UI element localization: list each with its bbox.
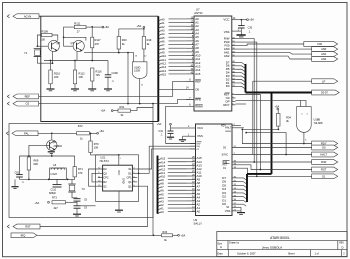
svg-text:470: 470: [95, 42, 100, 46]
svg-text:4: 4: [133, 168, 134, 170]
svg-text:IRQ: IRQ: [197, 146, 201, 148]
svg-text:A0: A0: [197, 210, 201, 214]
resistor R110 220: [49, 70, 52, 84]
svg-text:O0: O0: [322, 146, 326, 150]
U21 74LS74 sub-box: [96, 155, 139, 202]
svg-text:ATARI 800XL: ATARI 800XL: [270, 236, 290, 240]
svg-text:U18B: U18B: [314, 117, 321, 121]
title block date row: [227, 250, 229, 257]
net label PAL (left): [6, 132, 8, 135]
wire U21 to SALLY clock lines: [137, 149, 195, 169]
svg-text:PAL: PAL: [24, 131, 29, 135]
svg-text:74LS74: 74LS74: [99, 159, 109, 163]
net label RDY: [312, 141, 338, 146]
svg-text:R31: R31: [120, 105, 125, 109]
svg-text:D: D: [342, 246, 344, 250]
ground SALLY VSS: [179, 139, 186, 141]
active-low overbars on pin names: [195, 79, 201, 81]
svg-text:6: 6: [133, 185, 134, 187]
capacitor C111 825pF: [56, 179, 58, 184]
svg-text:VCC: VCC: [223, 17, 229, 21]
svg-text:A: A: [220, 245, 222, 249]
wire Y2 bottom to R73 row: [72, 192, 77, 198]
net label AN1: [312, 52, 338, 57]
net label O0: [312, 145, 338, 150]
svg-text:A14: A14: [160, 160, 165, 164]
wire U18B left input: [300, 100, 302, 106]
power +5A (R72): [90, 132, 97, 134]
svg-text:10: 10: [98, 185, 100, 187]
wire U18D net vertical to IRQ line: [152, 104, 154, 236]
net label AN0: [312, 47, 338, 52]
svg-text:+5A: +5A: [249, 18, 254, 22]
power +5A (R19/R20): [143, 26, 145, 28]
wire U21 clock feed: [118, 155, 120, 165]
wire R19 bottom to U18D input: [143, 49, 145, 62]
wire Q7 emitter down: [76, 52, 78, 61]
resistor R116 7k5: [91, 68, 94, 81]
wire F00 to net label: [236, 44, 304, 46]
SALLY clock input pins: [190, 143, 196, 145]
resistor R20 3k: [117, 36, 120, 49]
title block size/doc row: [227, 241, 229, 250]
ground below R116: [88, 88, 96, 90]
wire AN0 to net label: [236, 48, 312, 50]
svg-text:+5A: +5A: [35, 201, 40, 205]
wire U18D output net vertical: [127, 53, 129, 104]
svg-text:+5A: +5A: [275, 104, 280, 108]
ANTIC pin 24 O0: [158, 88, 194, 90]
wire LP: [253, 80, 312, 82]
svg-text:Drawn by: Drawn by: [229, 242, 240, 245]
svg-text:A10: A10: [160, 175, 165, 179]
svg-text:A6: A6: [161, 40, 165, 44]
svg-text:R117: R117: [95, 38, 102, 42]
ground SALLY bottom: [240, 207, 242, 212]
resistor R70 10K: [89, 141, 92, 153]
svg-text:GND: GND: [122, 178, 125, 184]
svg-text:A9: A9: [160, 178, 164, 182]
wire AN1 to net label: [236, 53, 312, 55]
svg-text:CP1: CP1: [127, 176, 133, 180]
svg-text:A4: A4: [161, 32, 165, 36]
svg-text:Q7: Q7: [71, 41, 75, 45]
resistor R117 470: [91, 27, 93, 37]
svg-text:C209: C209: [112, 71, 119, 75]
ground below C209: [104, 88, 112, 90]
title block REV box: [337, 241, 339, 250]
SALLY pin 7 SYNC: [232, 154, 312, 156]
wire U21 left feedback loops: [89, 169, 98, 186]
wire +5A to R20 top: [143, 28, 144, 29]
svg-text:+5A: +5A: [137, 24, 142, 28]
svg-text:1 of: 1 of: [315, 252, 319, 255]
resistor R112 100: [73, 70, 76, 84]
svg-text:+5A: +5A: [104, 25, 109, 29]
svg-text:A15: A15: [195, 72, 201, 76]
svg-text:A1: A1: [161, 21, 165, 25]
svg-text:LS08: LS08: [134, 70, 140, 73]
svg-text:VSS: VSS: [224, 30, 230, 34]
wire R117 bottom to emitter rail: [91, 48, 93, 61]
svg-text:+5A: +5A: [157, 123, 162, 126]
SALLY pin 37 O0: [232, 147, 312, 149]
svg-text:R116: R116: [96, 70, 103, 74]
ground below U21: [118, 191, 120, 210]
ground below C112/C113: [73, 213, 81, 215]
capacitor C30 .1: [240, 20, 242, 26]
svg-text:R111: R111: [74, 21, 81, 25]
svg-text:R/W: R/W: [197, 144, 201, 146]
svg-text:D0: D0: [222, 202, 226, 206]
svg-text:100: 100: [41, 37, 46, 41]
svg-text:A12: A12: [161, 62, 166, 66]
svg-text:R109: R109: [42, 29, 49, 33]
svg-text:AN1: AN1: [321, 52, 327, 56]
net label AN2: [312, 57, 338, 62]
data bus horizontal D0-D7: [246, 92, 312, 94]
svg-text:13: 13: [135, 56, 137, 58]
svg-text:D0: D0: [226, 84, 230, 88]
svg-text:Sheet: Sheet: [288, 252, 295, 255]
op-amp U18D LS08 gate: [132, 62, 147, 79]
wire PAL line to Q6 collector: [51, 132, 53, 134]
wire U18B output: [303, 132, 305, 143]
svg-text:74LS08: 74LS08: [314, 121, 324, 125]
svg-text:+5A: +5A: [99, 129, 104, 133]
net label HALT: [312, 152, 338, 157]
svg-text:R34: R34: [286, 115, 291, 119]
op-amp U18B 74LS08 gate: [297, 107, 312, 133]
power +5A (oscillator): [102, 26, 104, 28]
resistor R19 3k: [142, 36, 145, 49]
SALLY pin 36 R/W: [232, 161, 312, 163]
svg-text:RST: RST: [222, 165, 227, 167]
svg-text:A5: A5: [161, 36, 165, 40]
svg-text:R2: R2: [103, 180, 107, 184]
data bus horizontal to SALLY: [247, 173, 272, 175]
svg-text:13: 13: [98, 181, 100, 183]
wire R111 right to +5A: [86, 26, 102, 28]
ground below C61: [14, 179, 16, 186]
net label R/W: [312, 160, 338, 165]
svg-text:Q1: Q1: [128, 180, 132, 184]
ground below C31: [167, 136, 174, 138]
svg-text:O1: O1: [322, 174, 326, 178]
svg-text:3: 3: [133, 176, 134, 178]
svg-text:D0-D7: D0-D7: [321, 92, 329, 95]
svg-text:AN0: AN0: [321, 47, 327, 51]
svg-text:1: 1: [120, 158, 121, 160]
data bus vertical (ANTIC side): [245, 64, 247, 93]
svg-text:A0: A0: [161, 18, 165, 22]
wire PH0 vertical: [236, 42, 257, 176]
PAL oscillator sub-circuit enclosure box: [9, 124, 153, 218]
svg-text:HALT: HALT: [225, 127, 231, 130]
wire AC-IN to oscillator box top edge: [39, 15, 158, 17]
svg-text:RDY: RDY: [223, 103, 229, 107]
wire SALLY HALT: [246, 133, 286, 155]
wire RST to U21 clear: [40, 186, 148, 226]
svg-text:2: 2: [133, 172, 134, 174]
svg-text:Q2: Q2: [103, 171, 107, 175]
svg-text:U21: U21: [100, 156, 105, 160]
SALLY right pins RDY HALT: [232, 124, 241, 126]
svg-text:220: 220: [54, 75, 59, 79]
wire emitter rail: [44, 60, 108, 62]
svg-text:A14: A14: [161, 69, 166, 73]
ground at Q6 emitter: [48, 151, 55, 153]
ANTIC address pins A0-A15 with bus entries: [158, 20, 161, 22]
SALLY pin 38 O1: [232, 168, 312, 176]
svg-text:10K: 10K: [94, 146, 99, 150]
svg-text:R73: R73: [52, 196, 57, 200]
net label RST (left): [7, 225, 9, 228]
svg-text:LP: LP: [322, 79, 325, 83]
svg-text:VSS: VSS: [197, 134, 203, 138]
wire O2 line through oscillator box: [39, 103, 153, 105]
svg-text:C30: C30: [248, 27, 253, 30]
svg-text:7k5: 7k5: [96, 73, 101, 77]
svg-text:A12: A12: [160, 167, 165, 171]
svg-text:R70: R70: [94, 142, 99, 146]
capacitor C112: [66, 201, 78, 203]
svg-text:+5A: +5A: [101, 109, 106, 113]
ANTIC pin 6 RNMI: [186, 105, 194, 107]
wire R72 node to R70 top: [90, 132, 92, 134]
svg-text:A9: A9: [161, 51, 165, 55]
svg-text:October 6, 2007: October 6, 2007: [237, 251, 256, 255]
svg-text:Y1: Y1: [24, 51, 28, 55]
crystal Y2: [71, 179, 73, 184]
wire IRQ line: [37, 234, 162, 236]
svg-text:A5: A5: [160, 192, 164, 196]
wire ANTIC RNMI down to SALLY clock line: [166, 106, 196, 143]
wire R34 bottom: [277, 126, 279, 129]
address bus A0-A15 vertical (doubles as oscillator box right edge): [157, 16, 159, 121]
title block frame: [217, 232, 347, 257]
wire O2 to ANTIC pin 7: [153, 100, 194, 104]
SALLY data pins D7-D0 with bus bundle: [232, 177, 238, 179]
svg-text:100: 100: [79, 75, 84, 79]
svg-text:VSS: VSS: [225, 209, 231, 213]
wire REF through box to ANTIC pin 8: [39, 95, 173, 97]
resistor R69 6k8: [28, 145, 30, 157]
wire ANTIC DP stub: [236, 103, 247, 105]
svg-text:AN2: AN2: [321, 57, 327, 61]
net label AC-IN: [7, 15, 9, 18]
transistor Q8: [48, 40, 59, 51]
net label O2 (left): [7, 102, 9, 105]
svg-text:9: 9: [98, 172, 99, 174]
svg-text:A7: A7: [161, 43, 165, 47]
svg-text:A15: A15: [161, 73, 166, 77]
svg-text:A10: A10: [161, 54, 166, 58]
wire Q6 base from R69 node: [29, 144, 50, 146]
svg-text:IRQ: IRQ: [21, 233, 26, 237]
wire SALLY RDY to U18B output net: [242, 129, 311, 143]
svg-text:Date:: Date:: [218, 252, 224, 255]
ground below R110: [47, 88, 55, 90]
ANTIC bottom-right pins RST O0 DP RDY: [232, 94, 236, 96]
svg-text:A3: A3: [160, 199, 164, 203]
svg-text:R69: R69: [34, 159, 39, 163]
svg-text:A11: A11: [161, 58, 166, 62]
svg-text:A15: A15: [160, 157, 165, 161]
SALLY address pins A15-A0 with bus entries: [158, 159, 161, 161]
resistor R34 3k: [276, 114, 280, 127]
SALLY address bus vertical: [157, 156, 159, 214]
net label D0-D7: [312, 90, 340, 95]
svg-text:Jerzy SOBOLA: Jerzy SOBOLA: [262, 245, 282, 249]
junction Q7 collector node: [63, 36, 65, 38]
net label F00: [304, 42, 338, 47]
svg-text:SALLY: SALLY: [194, 222, 203, 226]
SALLY pin VSS bottom: [232, 210, 241, 212]
svg-text:SYNC: SYNC: [222, 154, 229, 156]
wire R109 left to Y1 node: [37, 35, 41, 46]
wire Y1 bottom to emitter rail: [37, 57, 52, 64]
wire R70 bottom to U21 clock: [91, 153, 119, 155]
svg-text:1.5uH: 1.5uH: [50, 173, 57, 176]
transistor Q6: [47, 140, 57, 150]
svg-text:C111: C111: [51, 189, 57, 192]
svg-text:D1: D1: [128, 171, 132, 175]
transistor Q7: [73, 40, 84, 51]
svg-text:A7: A7: [160, 185, 164, 189]
wire ANTIC RDY to U18B input: [236, 100, 307, 106]
svg-text:12: 12: [98, 168, 100, 170]
wire U21 Q1 to SALLY: [137, 146, 195, 173]
data bus vertical (SALLY side): [246, 174, 248, 202]
svg-text:A13: A13: [161, 65, 166, 69]
svg-text:ANTIC: ANTIC: [194, 11, 202, 15]
svg-text:S2: S2: [103, 184, 107, 188]
wire U18D output down: [139, 78, 141, 104]
ANTIC pin 8 REF: [186, 80, 194, 82]
svg-text:Q1: Q1: [128, 184, 132, 188]
svg-text:5: 5: [133, 181, 134, 183]
wire ANTIC R/W to SALLY R/W: [236, 39, 255, 162]
svg-text:R/W: R/W: [321, 160, 327, 164]
svg-text:2N3904: 2N3904: [54, 145, 63, 148]
svg-text:A8: A8: [160, 182, 164, 186]
ground ANTIC VSS: [240, 31, 242, 34]
svg-text:VCC: VCC: [197, 126, 203, 130]
ground below R112: [71, 88, 79, 90]
svg-text:12: 12: [144, 56, 146, 58]
ANTIC data pins D7-D0 with bus bundle: [232, 61, 237, 63]
svg-text:A4: A4: [160, 196, 164, 200]
svg-text:A0: A0: [160, 210, 164, 214]
svg-text:AN2: AN2: [224, 54, 230, 58]
svg-text:RST: RST: [321, 168, 327, 172]
svg-text:S1: S1: [128, 167, 132, 171]
wire R31 right to O2 line: [131, 108, 154, 111]
svg-text:C61: C61: [15, 170, 20, 174]
wire Y1 node to Q8 base: [37, 45, 39, 47]
svg-text:A2: A2: [161, 25, 165, 29]
svg-text:VCC: VCC: [117, 170, 120, 175]
ANTIC pin 7 RFE: [186, 99, 194, 101]
wire AN2 to net label: [236, 56, 312, 59]
svg-text:A2: A2: [160, 203, 164, 207]
svg-text:A6: A6: [160, 189, 164, 193]
wire Q8 emitter down: [52, 52, 54, 64]
wire oscillator rail lower: [20, 178, 75, 180]
wire R109 right to Q8 collector: [52, 35, 58, 41]
oscillator sub-circuit enclosure box: [41, 16, 159, 121]
svg-text:Q8: Q8: [57, 41, 61, 45]
svg-text:O0: O0: [195, 87, 199, 91]
svg-text:R110: R110: [54, 72, 61, 76]
svg-text:R112: R112: [79, 72, 86, 76]
svg-text:RST: RST: [25, 225, 31, 229]
svg-text:+5A: +5A: [181, 233, 186, 237]
wire C113 to U21 box: [81, 205, 96, 207]
svg-text:AC-IN: AC-IN: [24, 14, 31, 18]
svg-text:D2: D2: [103, 167, 107, 171]
net label IRQ (left): [11, 233, 37, 238]
svg-text:11: 11: [141, 85, 143, 87]
svg-text:A3: A3: [161, 29, 165, 33]
IC U9 SALLY body: [196, 124, 233, 216]
svg-text:825pF: 825pF: [49, 192, 57, 195]
svg-text:F00: F00: [317, 42, 322, 46]
resistor R71 470: [74, 156, 76, 167]
svg-text:Y2: Y2: [82, 187, 86, 191]
wire oscillator output to U18D input: [84, 52, 134, 54]
net label LP: [312, 79, 338, 84]
svg-text:11: 11: [98, 176, 100, 178]
svg-text:R72: R72: [78, 124, 83, 128]
SALLY pin 39 RST: [232, 165, 312, 170]
net label REF (left): [7, 95, 9, 98]
junction R111/R117 node: [91, 26, 93, 28]
svg-text:470: 470: [78, 171, 83, 175]
svg-text:REV: REV: [339, 243, 344, 245]
capacitor C209 .1: [107, 61, 109, 75]
svg-text:R19: R19: [147, 38, 152, 42]
SALLY pin S0: [232, 206, 241, 208]
svg-text:O2: O2: [26, 102, 30, 106]
wire R111 left to Q7 collector: [64, 27, 75, 37]
junction data bus to SALLY branch: [271, 93, 273, 174]
svg-text:CP2: CP2: [103, 176, 109, 180]
power +5A (IRQ pull-up): [173, 234, 178, 236]
capacitor C113: [74, 205, 81, 207]
svg-text:REF: REF: [25, 94, 31, 98]
svg-text:4k7: 4k7: [54, 206, 59, 210]
wire PAL line: [38, 132, 77, 134]
svg-text:A1: A1: [160, 207, 164, 211]
svg-text:A13: A13: [160, 164, 165, 168]
net label O1: [312, 174, 338, 179]
ANTIC right control pins R/W PH0 F00 AN0 AN1 AN2: [232, 38, 236, 40]
wire ANTIC RST to right RST net: [236, 95, 261, 170]
power +5A (ANTIC VCC): [247, 19, 249, 21]
svg-text:6k8: 6k8: [34, 162, 39, 166]
svg-text:R20: R20: [122, 38, 127, 42]
svg-text:A8: A8: [161, 47, 165, 51]
wire oscillator rail upper: [20, 155, 75, 157]
svg-text:HALT: HALT: [320, 153, 327, 157]
net label RST: [312, 167, 338, 172]
svg-text:R71: R71: [78, 167, 83, 171]
svg-text:A11: A11: [160, 171, 165, 175]
